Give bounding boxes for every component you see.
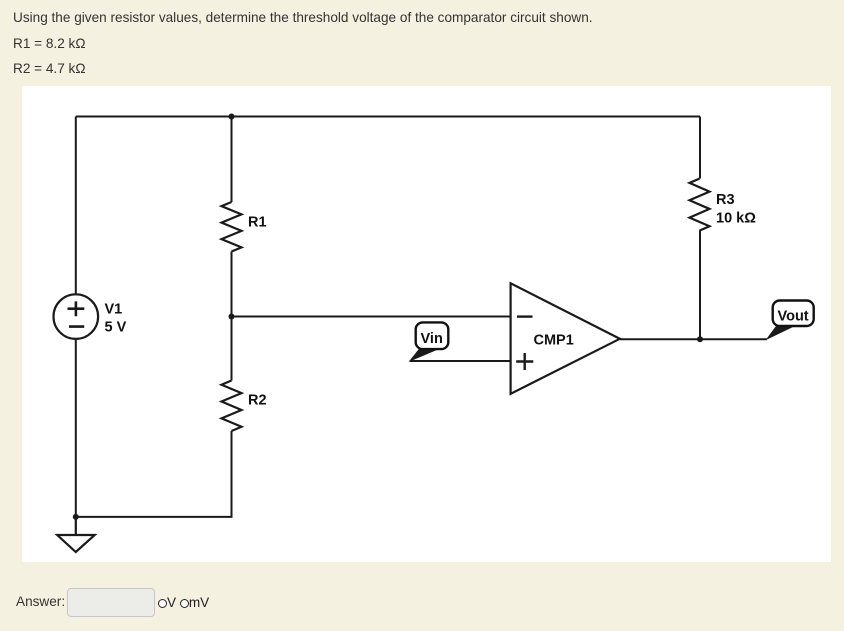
svg-text:R1: R1 xyxy=(248,215,267,231)
wire output xyxy=(620,338,767,340)
resistor R3 xyxy=(690,179,710,231)
wire left rail upper xyxy=(75,117,77,295)
svg-text:R2: R2 xyxy=(248,393,267,409)
node junction R1-R2 xyxy=(229,314,235,320)
wire R1 branch top xyxy=(231,117,233,203)
wire inverting input xyxy=(232,316,511,318)
node junction output xyxy=(697,336,703,342)
svg-text:Vin: Vin xyxy=(421,331,443,347)
wire bottom rail xyxy=(76,431,232,517)
wire R3 branch bottom xyxy=(699,231,701,340)
wire top rail xyxy=(76,116,700,118)
wire left rail lower xyxy=(75,339,77,517)
wire R1 to R2 xyxy=(231,252,233,381)
node junction ground xyxy=(73,514,79,520)
node junction top of R1 xyxy=(229,114,235,120)
resistor R1 xyxy=(222,202,242,252)
wire R3 branch top xyxy=(699,117,701,179)
svg-text:R3: R3 xyxy=(716,192,735,208)
flag Vout xyxy=(766,301,814,341)
svg-text:Vout: Vout xyxy=(778,309,809,325)
voltage source V1 xyxy=(54,294,99,339)
resistor R2 xyxy=(222,381,242,432)
svg-text:CMP1: CMP1 xyxy=(534,333,574,349)
svg-text:V1: V1 xyxy=(105,302,123,318)
wire noninverting input xyxy=(410,360,511,362)
svg-text:10 kΩ: 10 kΩ xyxy=(716,211,756,227)
ground xyxy=(57,517,94,552)
flag Vin xyxy=(409,322,449,362)
svg-text:5 V: 5 V xyxy=(105,320,127,336)
op-amp CMP1 xyxy=(511,283,620,394)
